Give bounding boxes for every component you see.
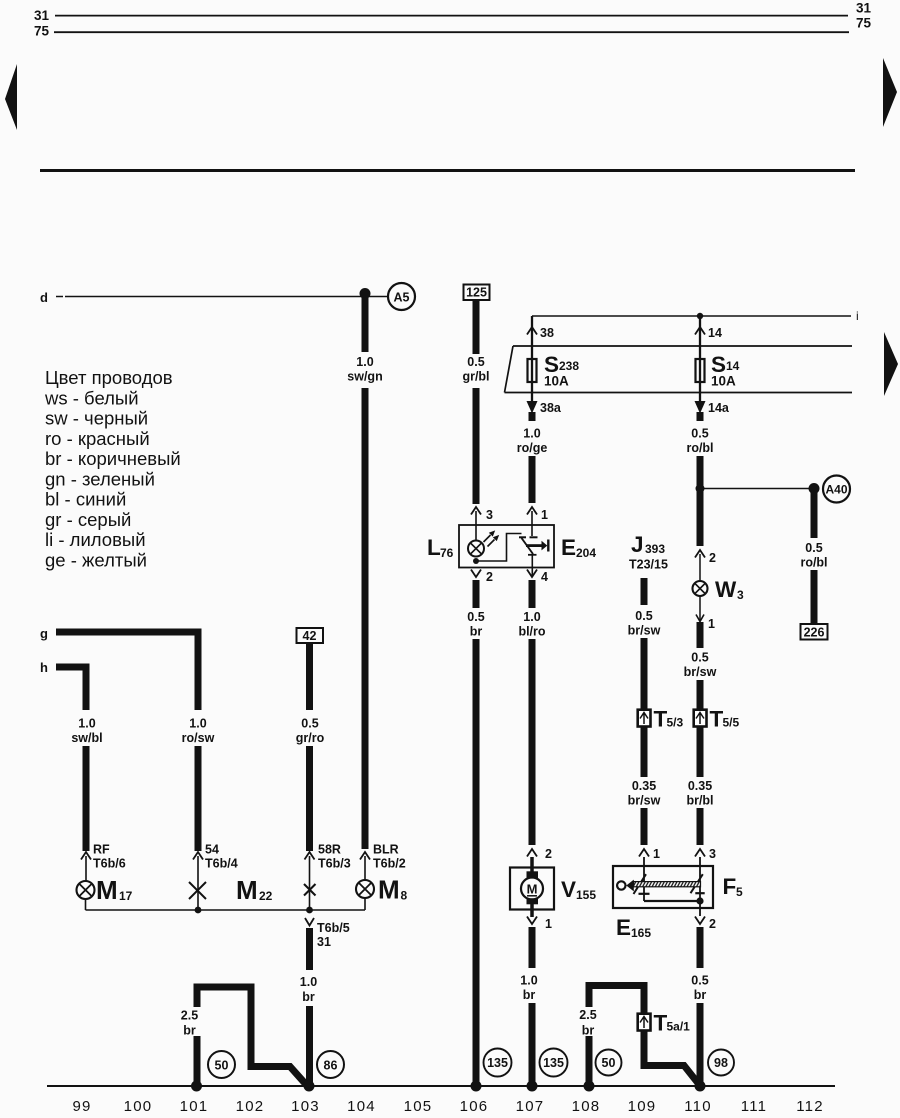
svg-text:31: 31 [317,935,331,949]
wire col107 bl/ro long [529,639,536,845]
svg-text:10A: 10A [711,374,736,389]
svg-text:br - коричневый: br - коричневый [45,448,181,469]
svg-text:111: 111 [741,1098,767,1115]
svg-text:M: M [527,882,538,897]
svg-text:238: 238 [559,359,579,373]
lamp M8 [356,880,374,898]
arrow pin 2 F5 [695,917,705,925]
svg-text:0.5: 0.5 [805,541,822,555]
svg-text:75: 75 [34,24,50,39]
svg-text:br: br [523,988,536,1002]
svg-text:38: 38 [540,326,554,340]
terminal circle 98 [708,1050,734,1076]
svg-text:br/sw: br/sw [684,665,717,679]
arrow terminal 38 [527,327,537,335]
svg-text:17: 17 [119,889,133,903]
svg-text:br: br [183,1024,196,1038]
svg-text:sw - черный: sw - черный [45,408,148,429]
svg-text:2: 2 [545,847,552,861]
wire col110 br/sw stub [697,622,704,648]
wire col110 br/sw [697,680,704,709]
svg-text:ro/bl: ro/bl [686,441,713,455]
svg-text:M: M [378,875,400,905]
lamp M17 [77,881,95,899]
junction dot col110 branch [696,484,705,493]
svg-text:2: 2 [709,551,716,565]
terminal dot 110 [695,1081,706,1092]
svg-text:1: 1 [708,617,715,631]
svg-text:ge - желтый: ge - желтый [45,549,147,570]
svg-text:A5: A5 [394,291,410,305]
arrow terminal T6b/6 [81,852,91,860]
svg-text:1.0: 1.0 [189,717,206,731]
svg-text:J: J [631,532,644,557]
svg-text:2.5: 2.5 [181,1009,198,1023]
wire col103 contact thin [309,856,311,910]
wire col107 br lower [529,1003,536,1084]
svg-text:22: 22 [259,889,273,903]
wire col106 br long [473,639,480,1084]
svg-text:5/5: 5/5 [723,716,740,730]
node d tick [56,296,63,298]
svg-text:393: 393 [645,542,665,556]
wire M8 to bus [364,898,366,910]
wire link lamp to switch [476,534,522,562]
svg-text:ro/sw: ro/sw [182,731,215,745]
wire W3 upper thin [699,554,701,581]
wire col109 stub [641,578,648,605]
svg-text:10A: 10A [544,374,569,389]
rail 31 wire [55,15,848,17]
svg-text:204: 204 [576,546,596,560]
svg-text:T6b/2: T6b/2 [373,857,406,871]
wire col104 sw/gn upper [362,293,369,352]
wire M22 thin [197,856,199,910]
svg-text:1.0: 1.0 [300,975,317,989]
wire jumper 101 lower [194,1036,201,1084]
svg-text:14: 14 [726,359,740,373]
svg-text:0.5: 0.5 [301,717,318,731]
bus wire M row [86,909,366,911]
svg-text:75: 75 [856,16,872,31]
wire col110 middle [697,727,704,777]
legend: wire colours [44,367,181,570]
junction dot d / col104 [360,288,371,299]
svg-text:ws - белый: ws - белый [44,387,139,408]
svg-text:ro/ge: ro/ge [517,441,548,455]
svg-text:226: 226 [804,626,825,640]
wire branch to A40 [700,488,814,490]
wire col110 ro/bl stub [697,412,704,421]
svg-text:2.5: 2.5 [579,1008,596,1022]
wire col110 lower [697,808,704,845]
wire col103 br lower [306,1006,313,1084]
svg-text:1.0: 1.0 [523,610,540,624]
svg-text:1.0: 1.0 [78,717,95,731]
motor V155 [510,857,554,917]
wire h horizontal [56,667,86,710]
svg-text:gr/ro: gr/ro [296,731,325,745]
svg-text:T: T [654,707,668,732]
wire col102 ro/sw lower [195,746,202,851]
svg-text:155: 155 [576,888,596,902]
wire col103 gr/ro upper [306,643,313,710]
wire M8 thin [364,856,366,880]
svg-text:54: 54 [205,843,219,857]
svg-text:86: 86 [324,1059,338,1073]
svg-text:T6b/5: T6b/5 [317,921,350,935]
svg-text:105: 105 [404,1098,433,1115]
terminal dot 101 [191,1081,202,1092]
svg-text:sw/gn: sw/gn [347,370,382,384]
wire fuse S238 vertical [531,316,533,401]
junction dot A40 [809,483,820,494]
svg-text:1.0: 1.0 [523,427,540,441]
wire col106 gr/bl upper [473,300,480,354]
wire g horizontal [56,632,198,710]
wire col103 gr/ro lower [306,746,313,851]
svg-text:5: 5 [736,885,743,899]
arrow pin 2 V155 [527,849,537,857]
arrow terminal 38a [527,401,538,414]
connector box 125 [464,285,490,301]
wire col110 br lower [697,1003,704,1084]
page arrow right top [883,58,897,127]
svg-text:bl/ro: bl/ro [518,625,545,639]
svg-text:8: 8 [401,889,408,903]
svg-text:50: 50 [602,1056,616,1070]
arrow pin 1 F5 [639,849,649,857]
arrow pin 2 W3 [695,550,705,558]
svg-text:Цвет проводов: Цвет проводов [45,367,173,388]
svg-text:A40: A40 [825,483,847,497]
connector T5/3 [638,710,651,727]
svg-text:165: 165 [631,926,651,940]
svg-text:50: 50 [215,1059,229,1073]
current track base line [47,1085,835,1087]
svg-text:br: br [470,625,483,639]
svg-text:101: 101 [180,1098,209,1115]
wire col107 ro/ge stub [529,412,536,421]
svg-text:gr/bl: gr/bl [462,370,489,384]
svg-text:g: g [40,626,48,641]
arrow pin 2 L76 [471,570,481,578]
wire col106 gr/bl lower [473,388,480,504]
svg-text:42: 42 [303,629,317,643]
svg-text:135: 135 [487,1056,508,1070]
arrow terminal T6b/4 [193,852,203,860]
wire col109 middle [641,727,648,777]
svg-text:i: i [856,309,859,323]
arrow terminal 14 [695,327,705,335]
svg-text:1: 1 [653,847,660,861]
svg-text:108: 108 [572,1098,601,1115]
connector T5a/1 [638,1014,651,1031]
svg-text:110: 110 [684,1098,712,1115]
net i line [532,315,851,317]
wire col110 ro/bl [697,456,704,546]
svg-text:F: F [723,874,737,899]
wire col109 upper [641,638,648,709]
rail 75 wire [54,31,849,33]
svg-text:3: 3 [737,588,744,602]
track numbers [72,1098,823,1115]
arrow terminal T6b/3 [305,852,315,860]
svg-text:RF: RF [93,843,110,857]
svg-text:107: 107 [516,1098,545,1115]
svg-text:W: W [715,577,737,602]
svg-text:1.0: 1.0 [356,355,373,369]
svg-text:V: V [561,877,576,902]
wire col107 bl/ro stub [529,580,536,608]
wire col110 br stub [697,927,704,968]
switch F5 [613,857,713,916]
wire jumper 108 to 110 [644,1031,700,1085]
switch E204 symbol [519,511,548,577]
svg-text:14a: 14a [708,401,730,415]
page arrow right mid [884,332,898,396]
junction dot lamp bottom [473,558,479,564]
wire pin 3 into box [475,511,477,541]
svg-text:ro - красный: ro - красный [45,428,150,449]
contact 58R cross [304,884,316,896]
wire col101 sw/bl lower [83,746,90,851]
svg-text:BLR: BLR [373,843,399,857]
svg-text:T6b/3: T6b/3 [318,857,351,871]
svg-text:br: br [694,988,707,1002]
wire jumper 108 upper [589,986,644,1014]
svg-text:h: h [40,660,48,675]
wire col109 lower [641,808,648,845]
wire col103 br stub [306,928,313,970]
svg-text:T6b/4: T6b/4 [205,857,238,871]
svg-text:0.5: 0.5 [691,427,708,441]
svg-text:4: 4 [541,570,548,584]
connector box 42 [297,628,324,643]
connector box 226 [801,624,828,640]
wire d horizontal [65,296,388,298]
arrow terminal T6b/2 [360,852,370,860]
terminal circle 50 left [208,1051,235,1078]
connector circle A5 [388,283,415,310]
wire col107 br stub [529,927,536,968]
svg-text:d: d [40,290,48,305]
svg-text:76: 76 [440,546,454,560]
svg-text:T: T [654,1011,668,1036]
arrow pin 1 E204 [527,507,537,515]
page arrow left [5,64,17,130]
svg-text:104: 104 [347,1098,376,1115]
svg-text:2: 2 [486,570,493,584]
svg-text:5a/1: 5a/1 [667,1020,691,1034]
svg-text:li - лиловый: li - лиловый [45,529,146,550]
svg-text:106: 106 [460,1098,489,1115]
svg-text:31: 31 [34,8,50,23]
arrow pin 4 E204 [527,570,537,578]
wire col106 br stub [473,580,480,608]
svg-text:103: 103 [291,1098,320,1115]
junction dot bus col103 [306,907,313,914]
arrow terminal T6b/5 [305,918,314,926]
svg-text:99: 99 [72,1098,91,1115]
relay box L76 / E204 [459,525,554,568]
svg-text:T6b/6: T6b/6 [93,857,126,871]
svg-text:31: 31 [856,1,872,16]
terminal circle 50 right [596,1050,622,1076]
junction dot bus col102 [195,907,202,914]
svg-text:3: 3 [486,508,493,522]
separator rule [40,169,855,172]
arrow pin 3 F5 [695,849,705,857]
svg-text:M: M [236,875,258,905]
terminal dot 103 [304,1081,315,1092]
fuse holder band [505,346,853,393]
svg-text:14: 14 [708,326,722,340]
svg-text:58R: 58R [318,843,341,857]
svg-text:0.35: 0.35 [688,779,712,793]
junction dot net i / S14 [697,313,703,319]
svg-text:br/sw: br/sw [628,624,661,638]
svg-text:109: 109 [628,1098,657,1115]
fuse S238 [528,359,537,382]
svg-text:E: E [561,535,576,560]
svg-text:98: 98 [714,1056,728,1070]
terminal dot 107 [527,1081,538,1092]
fuse S14 [696,359,705,382]
terminal circle 135 second [540,1049,568,1077]
wire A40 ro/bl lower [811,570,818,624]
svg-text:135: 135 [543,1056,564,1070]
wire W3 lower thin [699,596,701,620]
svg-text:br/sw: br/sw [628,794,661,808]
arrow pin 1 W3 [696,615,704,622]
svg-text:E: E [616,915,631,940]
wire jumper 108 lower [586,1036,593,1084]
svg-text:T23/15: T23/15 [629,558,668,572]
wire M17 thin [85,856,87,881]
svg-text:0.5: 0.5 [635,609,652,623]
svg-text:sw/bl: sw/bl [71,731,102,745]
svg-text:0.35: 0.35 [632,779,656,793]
svg-text:5/3: 5/3 [667,716,684,730]
svg-text:br/bl: br/bl [686,794,713,808]
svg-text:1: 1 [545,917,552,931]
svg-text:2: 2 [709,917,716,931]
svg-text:T: T [710,707,724,732]
wire jumper 101 to 103 [197,987,307,1085]
wire col107 ro/ge [529,456,536,503]
connector T5/5 [694,710,707,727]
wire fuse S14 vertical [699,316,701,401]
terminal circle 135 first [484,1049,512,1077]
wire col104 sw/gn long [362,388,369,849]
lamp L76 symbol [468,528,501,556]
svg-text:125: 125 [466,286,487,300]
lamp W3 [693,581,708,596]
arrow terminal 14a [695,401,706,414]
connector circle A40 [823,476,850,503]
svg-text:38a: 38a [540,401,562,415]
svg-text:0.5: 0.5 [691,651,708,665]
terminal circle 86 [317,1051,344,1078]
svg-text:br: br [302,990,315,1004]
svg-text:ro/bl: ro/bl [800,556,827,570]
svg-text:gn - зеленый: gn - зеленый [45,468,155,489]
svg-text:100: 100 [124,1098,153,1115]
arrow pin 1 V155 [527,917,537,925]
wire A40 ro/bl upper [811,490,818,538]
svg-text:bl - синий: bl - синий [45,489,126,510]
arrow pin 3 L76 [471,507,481,515]
svg-text:102: 102 [236,1098,265,1115]
contact M22 cross [189,882,206,899]
wire M17 to bus [85,899,87,910]
terminal dot 108 [584,1081,595,1092]
svg-text:0.5: 0.5 [467,610,484,624]
svg-text:L: L [427,535,441,560]
terminal dot 106 [471,1081,482,1092]
svg-text:br: br [582,1024,595,1038]
svg-text:gr - серый: gr - серый [45,509,131,530]
svg-text:3: 3 [709,847,716,861]
svg-text:M: M [96,875,118,905]
svg-text:112: 112 [796,1098,824,1115]
svg-text:1.0: 1.0 [520,974,537,988]
svg-text:1: 1 [541,508,548,522]
svg-text:0.5: 0.5 [467,355,484,369]
svg-text:0.5: 0.5 [691,974,708,988]
